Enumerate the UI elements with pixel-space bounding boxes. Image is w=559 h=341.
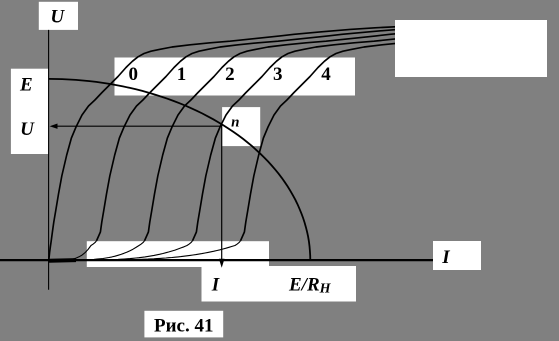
white box I axis label (right): [433, 241, 481, 270]
vertical line from n down with arrow: [221, 126, 223, 260]
white strip with curve numbers 0-4: [115, 58, 356, 96]
svg-text:I: I: [441, 247, 450, 268]
horizontal line from n to U axis with left arrow: [56, 125, 222, 127]
white box point n: [222, 107, 260, 146]
white strip bottom (curve tails): [87, 241, 269, 267]
big empty white box top right: [395, 20, 547, 77]
white box E / U (left): [11, 69, 49, 154]
curve 2 tail along I axis: [52, 241, 145, 260]
characteristic curve 4: [241, 43, 403, 241]
curve 4 tail along I axis: [52, 241, 241, 260]
svg-text:4: 4: [321, 64, 331, 85]
svg-text:1: 1: [177, 64, 187, 85]
svg-text:n: n: [231, 115, 239, 131]
characteristic curve 0: [49, 26, 420, 261]
characteristic curve 2: [145, 32, 417, 241]
svg-text:E: E: [19, 74, 33, 95]
I axis (horizontal): [0, 259, 433, 261]
thick ink blob at origin where tails overlap: [49, 258, 76, 263]
svg-text:2: 2: [225, 64, 235, 85]
svg-text:U: U: [50, 7, 65, 28]
characteristic curve 3: [193, 39, 400, 241]
curve 1 tail along I axis: [52, 241, 97, 260]
svg-text:Рис. 41: Рис. 41: [154, 316, 214, 337]
U axis (vertical): [48, 30, 50, 290]
svg-text:I: I: [211, 274, 220, 295]
white box U axis label (top): [39, 2, 78, 30]
svg-text:U: U: [20, 119, 35, 140]
svg-text:0: 0: [129, 64, 139, 85]
white box caption: [144, 311, 223, 338]
curve 3 tail along I axis: [52, 241, 193, 260]
load line ellipse from E to E/RH: [49, 79, 311, 260]
white box I arrow / E/RH labels: [202, 266, 357, 302]
svg-text:3: 3: [273, 64, 283, 85]
characteristic curve 1: [97, 29, 399, 240]
